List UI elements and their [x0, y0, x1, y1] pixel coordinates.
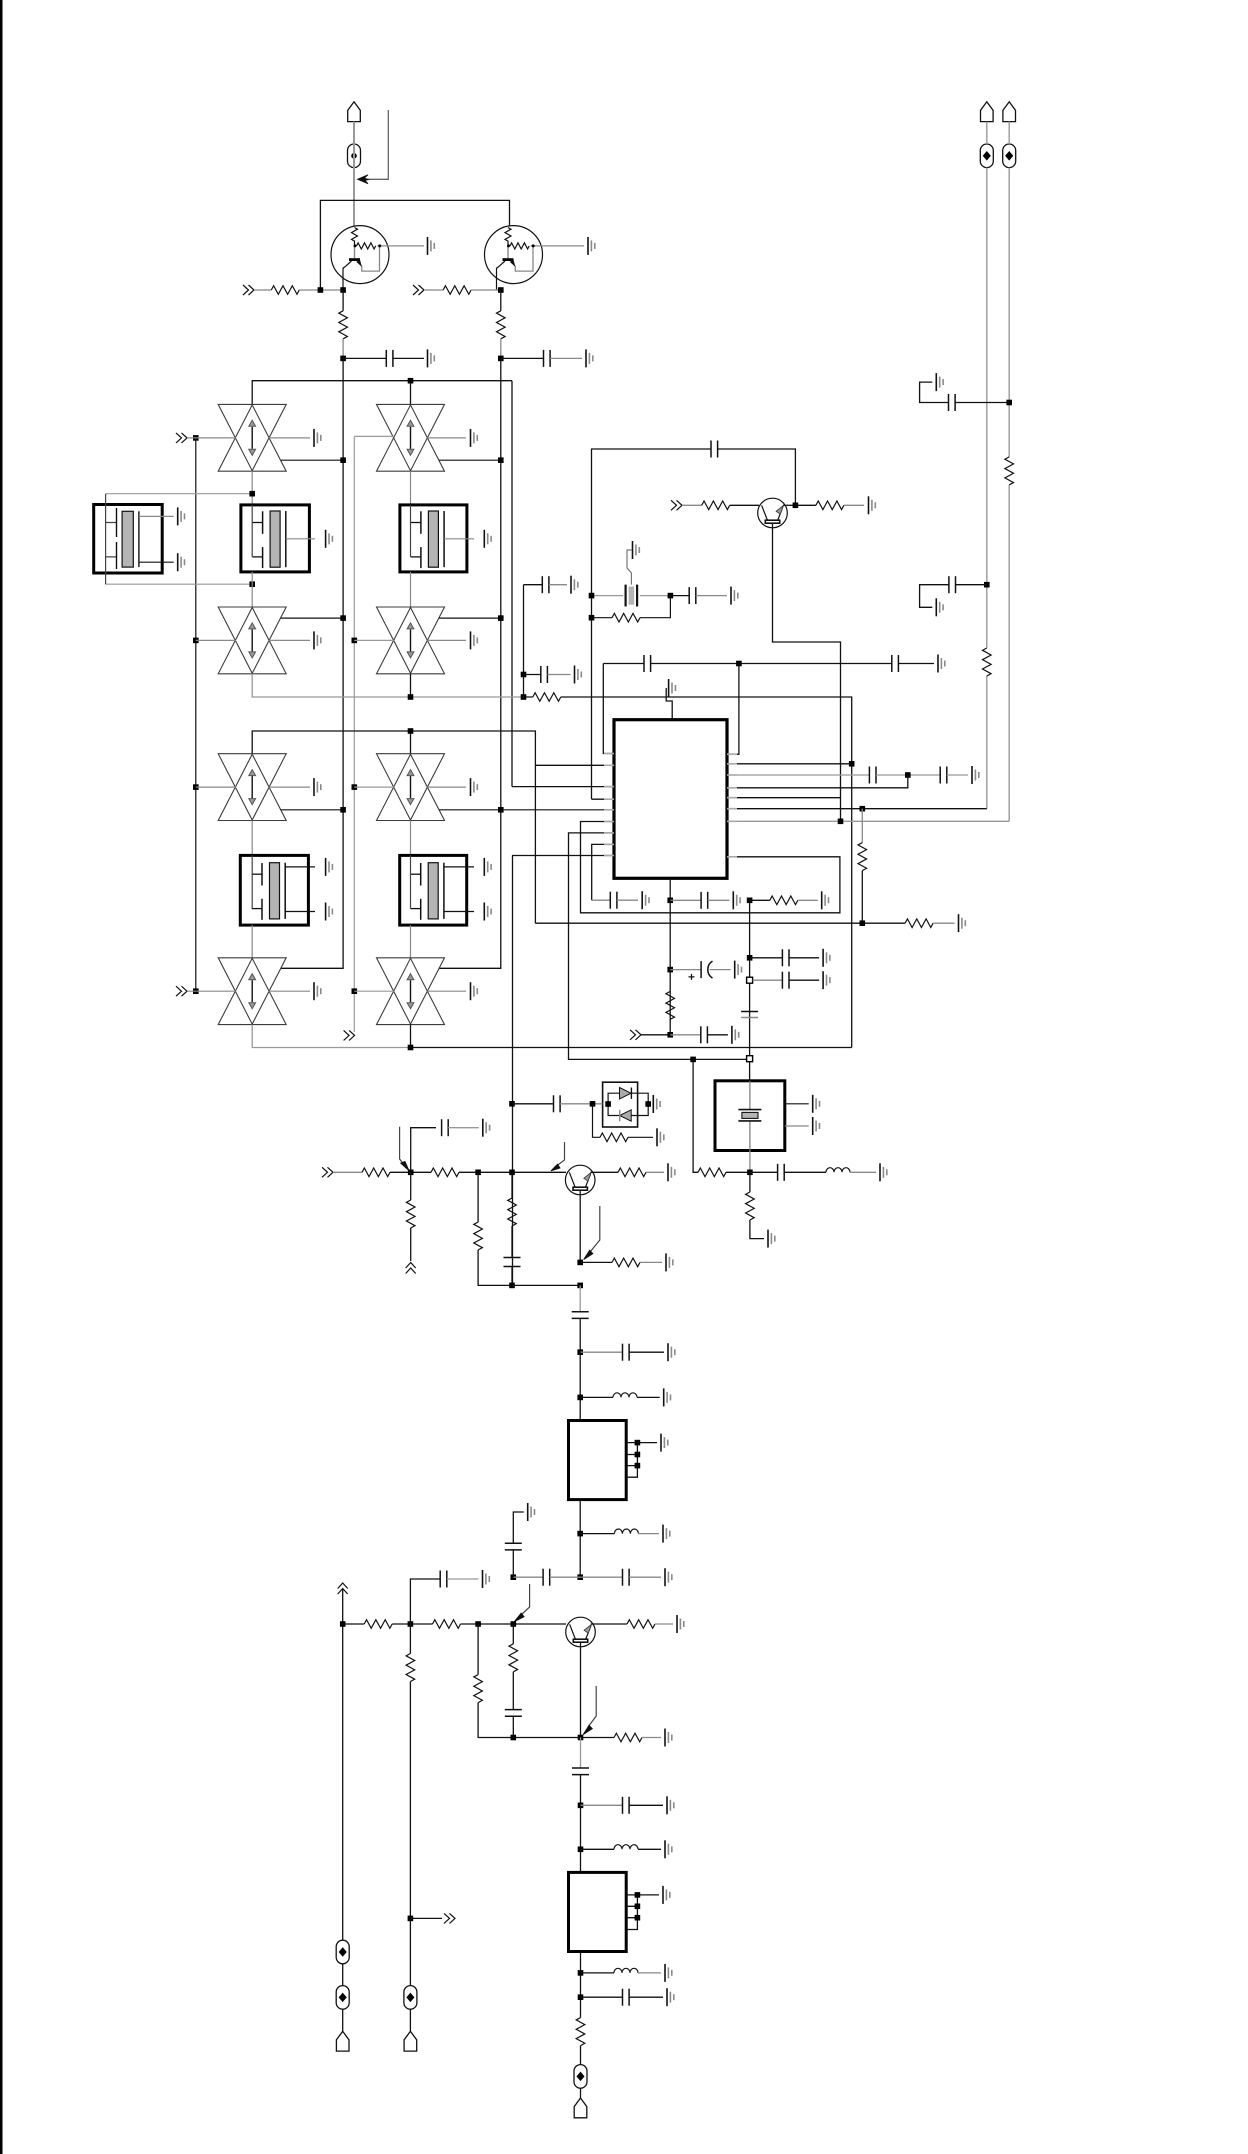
test point TP1 stadium [348, 144, 361, 168]
resistor R18 [410, 1172, 412, 1200]
connector P1 antenna pentagon [348, 102, 361, 122]
wire [286, 538, 315, 540]
ground C12 [972, 766, 979, 784]
row 1577 caps [577, 1574, 583, 1580]
wire [580, 1775, 582, 1873]
wire [139, 515, 174, 517]
junction [511, 1735, 517, 1741]
node [589, 593, 595, 599]
ground C16 [732, 1026, 739, 1044]
connector J4 tuning input lower [176, 986, 187, 996]
ground L3 [665, 1840, 672, 1858]
ground X3 [484, 530, 491, 548]
wire [254, 289, 271, 291]
junction [340, 615, 346, 621]
resistor R15 [593, 1104, 601, 1138]
junction [578, 1970, 584, 1976]
junction [577, 1349, 583, 1355]
ground D1 [269, 437, 310, 439]
capacitor C21 upper [411, 1128, 436, 1173]
wire [549, 584, 567, 586]
ground C26 [665, 1568, 672, 1586]
node D6 feed [352, 784, 358, 790]
connector J10 up chevron [338, 1583, 348, 1594]
wire [956, 584, 987, 586]
wire [584, 1250, 593, 1259]
wire [580, 2046, 582, 2065]
wire [505, 228, 511, 246]
wire [514, 1613, 524, 1621]
transistor Q3 [758, 498, 788, 528]
capacitor C15 electrolytic [670, 969, 701, 971]
node open [747, 977, 753, 983]
wire [354, 786, 394, 788]
resistor R17 [431, 1168, 459, 1177]
capacitor C29 [505, 1710, 522, 1717]
ground D5 [269, 786, 310, 788]
junction [635, 1463, 641, 1469]
wire [750, 1220, 764, 1239]
wire net P2 vertical [986, 122, 988, 809]
junction [577, 1395, 583, 1401]
ground X4 b [326, 903, 333, 921]
connector P6 pentagon [404, 2031, 417, 2051]
wire [409, 1918, 411, 1985]
inductor L4 [581, 1972, 615, 1974]
wire [726, 1171, 750, 1173]
ground [471, 631, 478, 649]
resistor R7 [795, 504, 816, 506]
ground D9 [648, 1103, 649, 1105]
wire [392, 1623, 432, 1625]
capacitor C30 series [580, 1738, 582, 1769]
test point TP3 stadium [1003, 144, 1016, 168]
junction [577, 1260, 583, 1266]
capacitor C7 on P2 net [984, 582, 990, 588]
wire [551, 1164, 560, 1171]
wire row G gray [727, 820, 1009, 822]
wire [572, 1768, 589, 1775]
inductor [613, 1393, 637, 1398]
wire D2 output tap [439, 459, 501, 461]
ground [669, 679, 676, 697]
capacitor [782, 972, 789, 989]
wire [354, 246, 356, 258]
wire [933, 922, 954, 924]
capacitor C18 [753, 979, 783, 981]
junction [249, 581, 255, 587]
node [747, 898, 753, 904]
wire [511, 1226, 513, 1258]
wire [638, 1972, 661, 1974]
wire [572, 1312, 589, 1319]
wire bottom bank rail [252, 1025, 410, 1048]
wire IC pin6 loop [581, 822, 840, 913]
junction [408, 728, 414, 734]
ground L1 [664, 1388, 671, 1406]
wire [531, 245, 584, 247]
resistor R5 inline [533, 693, 561, 702]
resistor R31 [693, 1059, 698, 1172]
wire Q3 base down [773, 524, 841, 822]
wire [620, 1110, 632, 1121]
wire D1 output tap [281, 459, 343, 461]
wire IC pin2 left [535, 764, 614, 766]
wire [478, 1703, 513, 1738]
capacitor C28 upper [410, 1579, 440, 1624]
wire [524, 697, 852, 1048]
junction [838, 819, 844, 825]
capacitor [778, 1164, 785, 1181]
ground D7 [269, 990, 310, 992]
junction [340, 457, 346, 463]
junction [408, 1170, 414, 1176]
wire long IF bus [511, 381, 513, 787]
capacitor [949, 576, 956, 593]
ground L2 [663, 1525, 670, 1543]
wire [512, 1672, 514, 1710]
wire lower bank rail [252, 731, 535, 923]
wire [861, 871, 863, 924]
wire [718, 449, 796, 505]
resistor [474, 1675, 483, 1703]
wire IC pin9 [512, 855, 614, 857]
resistor R24 [433, 1620, 461, 1629]
capacitor C8 [644, 655, 651, 672]
connector J1 input [243, 285, 254, 295]
ground [314, 631, 321, 649]
ground D4 [427, 639, 466, 641]
wire [424, 289, 443, 291]
node D5 feed [193, 784, 199, 790]
ground D6 [427, 786, 466, 788]
ground [314, 982, 321, 1000]
capacitor C24 [580, 1351, 622, 1353]
wire [689, 974, 695, 980]
resistor R19 [477, 1172, 479, 1222]
wire [505, 1543, 522, 1550]
node [667, 898, 673, 904]
wire cap bus down [669, 900, 671, 1035]
resistor R2 [443, 286, 471, 295]
wire mid rail to IC [252, 674, 523, 697]
junction [793, 503, 799, 509]
wire [299, 289, 343, 291]
ground R15 [657, 1128, 664, 1146]
wire [617, 899, 638, 901]
capacitor [610, 892, 617, 909]
capacitor C12 [940, 767, 947, 784]
ground [428, 349, 435, 367]
ground L5 [880, 1163, 887, 1181]
wire [955, 402, 1009, 404]
junction [589, 615, 595, 621]
resistor [406, 1200, 415, 1228]
ground C21 [483, 1119, 490, 1137]
resistor R21 [618, 1168, 646, 1177]
capacitor C14 [670, 899, 701, 901]
connector P5 pentagon [336, 2031, 349, 2051]
inductor L2 [580, 1533, 614, 1535]
resistor [339, 311, 348, 339]
resistor R6 [702, 501, 730, 510]
wire [708, 961, 713, 978]
junction [690, 1057, 696, 1063]
junction [408, 378, 414, 384]
transistor Q1 band switch [331, 226, 424, 290]
wire [342, 1964, 344, 1986]
crystal X6 discriminator [592, 550, 671, 607]
junction [408, 1621, 414, 1627]
resistor R3 [342, 290, 344, 311]
wire Q5 collector row [591, 1623, 627, 1625]
wire Q5 base down [580, 1642, 582, 1737]
ground C10 [575, 666, 582, 684]
wire [511, 246, 533, 271]
capacitor C32 [581, 1996, 623, 1998]
connector P3 pentagon [1003, 102, 1016, 122]
resistor [612, 613, 640, 622]
wire X7 output row [749, 1151, 751, 1173]
ground X4 a [326, 858, 333, 876]
resistor R30 [576, 2018, 585, 2046]
capacitor C1 to ground [343, 357, 386, 359]
node [318, 287, 324, 293]
ground [314, 429, 321, 447]
wire [106, 494, 117, 585]
adjust arrow [588, 1686, 596, 1727]
node [498, 356, 504, 362]
wire crystal feed rail upper [106, 493, 253, 495]
capacitor C3 [711, 441, 718, 458]
wire [139, 561, 174, 563]
wire [478, 1250, 512, 1285]
junction [635, 1440, 641, 1446]
wire bowtie to crystal column left [251, 471, 253, 505]
IC U1 [614, 720, 727, 879]
junction [905, 772, 911, 778]
ground R13 [822, 891, 829, 909]
capacitor C6 on P3 net [1006, 400, 1012, 406]
wire left tuning rail [195, 438, 197, 991]
wire [444, 538, 474, 540]
wire IC pin8 [592, 844, 614, 900]
wire branch out [408, 1916, 414, 1922]
wire D2 feed [354, 435, 394, 437]
junction [747, 1170, 753, 1176]
crystal filter X1 leftmost [94, 494, 174, 585]
wire [411, 1047, 852, 1049]
node [340, 287, 346, 293]
ground C24 [668, 1343, 675, 1361]
node [747, 955, 753, 961]
capacitor [623, 1797, 630, 1814]
wire [583, 1725, 592, 1734]
ground C17 [823, 949, 830, 967]
varactor bowtie D8 [377, 958, 445, 1025]
wire bus T1 collector [281, 358, 343, 968]
inductor [614, 1529, 638, 1534]
capacitor C17 [750, 957, 783, 959]
capacitor C4 [670, 595, 689, 597]
resistor R9 on P3 net [1005, 457, 1014, 485]
junction [498, 807, 504, 813]
wire [196, 786, 236, 788]
connector J11 [444, 1913, 455, 1923]
ground Q1 emitter network [428, 237, 435, 255]
wire [638, 1848, 661, 1850]
resistor R11 [861, 809, 863, 843]
capacitor C11 [869, 767, 876, 784]
wire bus T2 collector [439, 358, 501, 968]
wire [682, 504, 702, 506]
capacitor [442, 1119, 449, 1136]
capacitor [623, 1344, 630, 1361]
wire AGC branch with arrowhead [366, 110, 388, 179]
ground D2 [427, 437, 466, 439]
wire [358, 246, 380, 271]
wire [342, 2009, 344, 2031]
capacitor [542, 576, 549, 593]
resistor [770, 896, 798, 905]
ground [586, 349, 593, 367]
wire [579, 1318, 581, 1352]
junction [578, 1803, 584, 1809]
varactor bowtie D3 [218, 607, 286, 674]
transistor Q4 [565, 1165, 595, 1195]
wire [655, 1623, 673, 1625]
wire [608, 1093, 648, 1115]
wire [187, 990, 236, 992]
test point TP5 stadium [336, 1940, 349, 1964]
node [340, 356, 346, 362]
junction [667, 1032, 673, 1038]
crystal filter X4 [240, 855, 315, 925]
varactor bowtie D7 [218, 958, 286, 1025]
junction [509, 1170, 515, 1176]
wire [580, 2088, 582, 2098]
wire decoupling row [603, 663, 934, 665]
wire crystal to bowtie D3 [251, 572, 253, 608]
wire [947, 774, 968, 776]
connector J6 [671, 500, 682, 510]
wire [629, 1576, 661, 1578]
junction [511, 1621, 517, 1627]
wire [646, 1171, 664, 1173]
wire [850, 1171, 876, 1173]
resistor R27 [512, 1624, 514, 1644]
wire [785, 1103, 809, 1105]
wire bank rail top [252, 381, 512, 405]
wire [513, 1576, 543, 1578]
resistor [698, 1168, 726, 1177]
wire [138, 511, 140, 567]
wire row F [727, 808, 987, 810]
test point TP6 stadium [336, 1986, 349, 2010]
wire [630, 1088, 632, 1099]
inductor L5 [826, 1168, 850, 1173]
wire [196, 639, 236, 641]
junction [475, 1170, 481, 1176]
resistor R28 [627, 1620, 655, 1629]
junction [578, 1994, 584, 2000]
junction [645, 1101, 651, 1107]
node D3 feed [193, 638, 199, 644]
ground C28 [483, 1570, 490, 1588]
junction [475, 1621, 481, 1627]
junction [577, 1283, 583, 1289]
capacitor C9 [892, 655, 899, 672]
wire [511, 1267, 513, 1286]
wire branch to IC right pin a [727, 664, 739, 755]
ground R28 [677, 1615, 684, 1633]
resistor R4 [500, 290, 502, 311]
wire [393, 357, 424, 359]
node [498, 287, 504, 293]
wire [642, 1737, 661, 1739]
ground R22 [666, 1253, 673, 1271]
ground C32 [667, 1988, 674, 2006]
capacitor C25 [543, 1569, 550, 1586]
inductor L3 [581, 1848, 615, 1850]
wire [626, 1895, 637, 1930]
varactor bowtie D2 [377, 404, 445, 471]
wire [738, 1110, 761, 1121]
wire IC bottom pin [669, 878, 671, 900]
resistor [614, 1733, 642, 1742]
transistor Q5 [566, 1617, 596, 1647]
wire [410, 1025, 412, 1048]
wire [637, 1396, 660, 1398]
wire [876, 774, 940, 776]
connector P2 pentagon [981, 102, 994, 122]
wire [700, 961, 702, 978]
wire [410, 1228, 412, 1261]
node [667, 967, 673, 973]
wire [471, 289, 501, 291]
capacitor [386, 350, 393, 367]
capacitor [541, 666, 548, 683]
ground C5 [571, 576, 578, 594]
resistor R1 [271, 286, 299, 295]
resistor [858, 843, 867, 871]
wire IF bus lower [512, 856, 514, 1286]
connector J8 [322, 1167, 333, 1177]
wire [628, 1136, 653, 1138]
wire [637, 1442, 657, 1444]
wire IC pin row top left [603, 664, 614, 754]
wire [708, 899, 730, 901]
wire [410, 674, 412, 697]
wire [354, 990, 394, 992]
wire [410, 925, 412, 958]
wire bowtie to crystal column lower [251, 821, 253, 856]
resistor [600, 1133, 628, 1142]
resistor [406, 1654, 415, 1682]
junction [668, 593, 674, 599]
junction [498, 615, 504, 621]
resistor [474, 1222, 483, 1250]
varactor bowtie D4 [377, 607, 445, 674]
page edge black bar [0, 0, 3, 2154]
junction [511, 1574, 517, 1580]
ground X7 b [813, 1117, 820, 1135]
node D8 feed [352, 988, 358, 994]
ground D8 [427, 990, 466, 992]
wire [696, 595, 727, 597]
wire [377, 245, 424, 247]
wire [390, 1171, 431, 1173]
